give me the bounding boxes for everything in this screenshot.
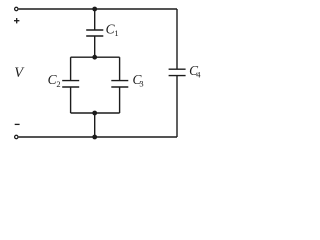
wire: C3 top lead	[119, 57, 121, 80]
wire: parallel section top bus	[71, 56, 120, 58]
terminal - (open circle)	[15, 135, 18, 138]
svg-text:4: 4	[196, 69, 201, 79]
capacitor C4 plates	[169, 69, 186, 75]
wire: C4 top lead	[176, 9, 178, 69]
terminal + (open circle)	[15, 7, 18, 10]
node: top junction at C1	[92, 7, 97, 12]
wire: C1 top lead	[94, 9, 96, 30]
svg-text:2: 2	[56, 79, 60, 89]
capacitor C2 plates	[62, 81, 79, 87]
wire: C3 bottom lead	[119, 87, 121, 113]
wire: parallel section bottom bus	[71, 112, 120, 114]
label C3	[133, 72, 144, 89]
node: bottom rail junction	[92, 135, 97, 140]
node: junction at bottom of parallel section	[92, 111, 97, 116]
wire: top rail from + terminal to C4 branch	[19, 8, 177, 10]
label C1	[106, 22, 119, 39]
wire: C2 top lead	[70, 57, 72, 80]
label C2	[48, 72, 61, 89]
wire: bottom rail from - terminal to C4 branch	[19, 136, 177, 138]
capacitor C3 plates	[111, 81, 128, 87]
wire: C4 bottom lead	[176, 76, 178, 137]
label C4	[189, 63, 201, 80]
wire: node between parallel bottom bus and bottom rail	[94, 113, 96, 137]
capacitor C1 plates	[86, 30, 103, 36]
label +	[14, 18, 19, 23]
wire: C2 bottom lead	[70, 87, 72, 113]
svg-text:3: 3	[139, 79, 143, 89]
wire: C1 bottom lead	[94, 36, 96, 57]
svg-text:V: V	[14, 65, 25, 81]
svg-text:1: 1	[114, 28, 118, 38]
node: junction at top of parallel section	[92, 55, 97, 60]
label -	[15, 123, 20, 125]
